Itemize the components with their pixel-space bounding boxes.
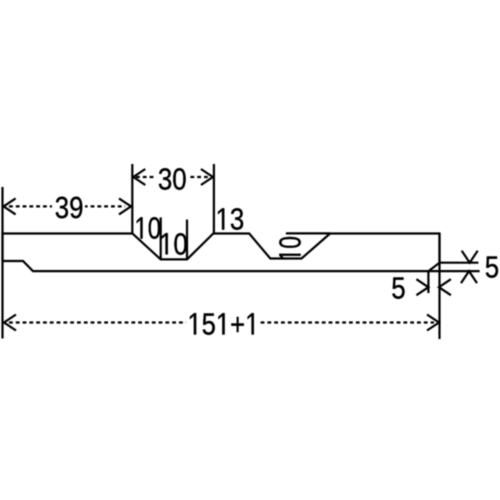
label 10 groove2 rotated bbox=[272, 236, 307, 259]
svg-text:3: 3 bbox=[230, 202, 244, 237]
wire extension line x=214 bbox=[213, 164, 215, 234]
svg-text:0: 0 bbox=[173, 227, 187, 262]
svg-text:+: + bbox=[230, 307, 245, 342]
profile bottom and left notch bbox=[3, 261, 480, 271]
svg-text:5: 5 bbox=[485, 250, 499, 285]
label 13 bbox=[218, 202, 244, 237]
svg-text:30: 30 bbox=[158, 162, 187, 197]
svg-text:5: 5 bbox=[391, 271, 405, 306]
wire right extension line bbox=[438, 234, 440, 340]
wire groove2 top reference segment bbox=[286, 232, 330, 234]
svg-text:0: 0 bbox=[272, 236, 307, 249]
dimension 5 horizontal chamfer bbox=[416, 279, 451, 295]
svg-text:5: 5 bbox=[202, 307, 216, 342]
wire right chamfer top reference bbox=[440, 262, 479, 264]
dimension 39 bbox=[4, 198, 131, 214]
dimension 5 vertical chamfer bbox=[461, 251, 478, 283]
dimension 30 bbox=[133, 169, 213, 185]
wire extension line x=160.7 groove1 bbox=[160, 217, 162, 258]
svg-text:0: 0 bbox=[148, 211, 161, 246]
label 10 groove1 left bbox=[137, 211, 161, 246]
dimension 151+1 bbox=[4, 315, 439, 331]
label 10 groove1 bottom bbox=[161, 227, 187, 262]
profile outline top bbox=[3, 234, 440, 272]
wire extension line x=187 groove1 bbox=[186, 220, 188, 260]
wire chamfer bottom extension bbox=[427, 271, 429, 293]
svg-text:39: 39 bbox=[55, 191, 84, 226]
wire extension line x=132 bbox=[131, 164, 133, 234]
wire left extension line bbox=[1, 187, 3, 339]
